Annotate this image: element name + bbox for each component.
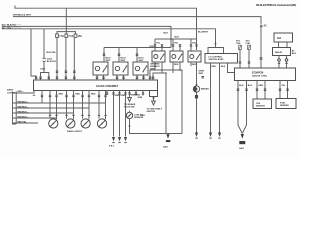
svg-text:SENSOR: SENSOR [134, 117, 144, 119]
relay bank2 bottom pins [96, 75, 98, 80]
sensor box B [276, 99, 296, 109]
svg-text:BLK: BLK [248, 85, 253, 87]
wire drop with connector to gauge [43, 29, 45, 58]
svg-text:A B C: A B C [109, 145, 115, 148]
svg-text:BLK: BLK [292, 53, 297, 55]
lamp L5 [126, 112, 132, 118]
arrow terminal mid 1 [195, 133, 198, 138]
svg-text:BLK: BLK [239, 85, 244, 87]
bus B2 [13, 17, 261, 24]
relay K5 [170, 51, 183, 62]
flat box feed bracket [215, 43, 217, 45]
flat box (switch assembly) [205, 54, 238, 64]
connector C506 [43, 58, 46, 61]
fuse bracket [57, 32, 76, 34]
relay K2 [113, 62, 128, 75]
V ground left [165, 73, 167, 134]
ECM/PCM box [235, 68, 296, 81]
fuse box B (top right) [274, 33, 293, 42]
svg-text:RELAY: RELAY [275, 51, 283, 54]
svg-text:BLK: BLK [221, 66, 226, 68]
bulb L3 [81, 119, 90, 128]
connector circles to ECM [278, 56, 280, 59]
svg-text:RED/BLK—: RED/BLK— [18, 106, 30, 108]
sub box on gauge right [150, 91, 158, 97]
svg-text:B2: B2 [292, 51, 296, 53]
gauge top connector ticks [35, 77, 154, 78]
svg-text:C501: C501 [40, 69, 46, 71]
svg-text:A22··BLK/YEL··—··: A22··BLK/YEL··—·· [2, 24, 22, 27]
svg-text:RED/BLK—: RED/BLK— [18, 116, 30, 118]
svg-text:SENSOR: SENSOR [256, 106, 265, 108]
bus B3 [2, 26, 171, 47]
svg-text:GRN: GRN [150, 68, 155, 70]
bus B2 connector break [260, 25, 262, 26]
svg-text:GRN: GRN [115, 95, 120, 97]
svg-text:CHK: CHK [246, 43, 251, 45]
svg-text:RED: RED [91, 94, 96, 96]
svg-text:RED: RED [76, 94, 81, 96]
svg-text:TO BRAKE: TO BRAKE [124, 103, 136, 106]
svg-text:GRN: GRN [121, 95, 126, 97]
svg-text:FUEL: FUEL [280, 102, 286, 104]
relay K1 [93, 62, 108, 75]
svg-text:40A: 40A [277, 37, 282, 40]
svg-text:YEL: YEL [192, 42, 197, 44]
svg-text:VSS: VSS [256, 103, 261, 105]
svg-text:RED/YEL: RED/YEL [18, 121, 28, 123]
svg-text:RED: RED [199, 73, 204, 75]
svg-text:WHT/BLK ▶ WHT: WHT/BLK ▶ WHT [13, 14, 32, 17]
relay box right [273, 48, 291, 56]
bulb L1 [49, 119, 58, 128]
inline connector ticks on fuse wires [56, 71, 76, 72]
relay bank1 bottom wiring [154, 62, 156, 70]
arrow terminal mid 2 [209, 133, 212, 138]
svg-text:C506: C506 [47, 59, 53, 61]
fuse feed from B1 [65, 8, 67, 31]
svg-text:LIGHTS: LIGHTS [7, 92, 16, 94]
svg-text:15A: 15A [78, 35, 83, 38]
long line from B1: junction, lamp, diode [196, 84, 198, 86]
bus B2 continuation to ECM [260, 27, 262, 68]
svg-text:RED: RED [212, 66, 217, 68]
open arrow from gauge pin [128, 98, 132, 102]
bus B1 (HOT AT ALL TIMES) [15, 6, 197, 51]
svg-text:G401: G401 [163, 146, 169, 149]
ECM bottom pins [238, 81, 242, 134]
svg-text:YEL: YEL [281, 85, 286, 87]
svg-text:A17··YEL—··—··—: A17··YEL—··—··— [2, 26, 22, 29]
svg-text:YEL: YEL [174, 42, 179, 44]
arrow terminal mid 3 [218, 133, 221, 138]
diode D1 [196, 92, 198, 95]
flat box bottom pins [210, 63, 212, 133]
svg-text:GRN: GRN [258, 85, 263, 87]
fuse F1 [56, 34, 59, 37]
svg-text:LOW OIL: LOW OIL [134, 115, 144, 117]
relay K6 [188, 51, 201, 62]
ground right [241, 134, 244, 139]
relay bank 2 feed bracket [104, 47, 171, 49]
gauge bottom connector ticks [33, 93, 144, 97]
ECM top ticks [239, 58, 288, 64]
fuse F2 [65, 34, 68, 37]
svg-text:GRN/: GRN/ [199, 71, 205, 73]
relay K4 [152, 51, 165, 62]
svg-text:FLUID SW: FLUID SW [124, 107, 136, 109]
svg-text:(GAUGE CTRL): (GAUGE CTRL) [252, 74, 267, 77]
svg-text:RED/BLK—: RED/BLK— [18, 111, 30, 113]
svg-text:RED/BLK—: RED/BLK— [18, 101, 30, 103]
svg-text:YEL: YEL [156, 42, 161, 44]
svg-text:C501: C501 [149, 46, 155, 48]
arrow terminals left group [112, 137, 115, 142]
svg-text:BLK: BLK [175, 37, 180, 39]
svg-text:A2: A2 [264, 25, 268, 28]
bulb L4 [97, 119, 106, 128]
svg-text:RED—: RED— [18, 91, 25, 93]
open arrow to other page [152, 101, 156, 105]
lamp on long line [193, 86, 199, 92]
gauge bottom pins [13, 91, 35, 94]
bus B4 [2, 29, 216, 48]
svg-text:RED: RED [59, 94, 64, 96]
svg-text:BLK: BLK [164, 33, 169, 35]
fuse output wires [56, 37, 58, 80]
svg-text:BLK/YEL: BLK/YEL [47, 52, 57, 54]
svg-text:G402: G402 [239, 147, 245, 150]
split bracket to two gauge pins [41, 73, 49, 81]
svg-text:CHK: CHK [236, 43, 241, 45]
junction bracket1/vertical [170, 38, 172, 40]
svg-text:DASH LIGHTS: DASH LIGHTS [67, 130, 82, 133]
wire drop to gauge pin 1 [31, 29, 36, 80]
svg-text:SENDER: SENDER [280, 105, 289, 107]
svg-text:DASH: DASH [7, 89, 14, 92]
svg-text:62 ELECTRICAL Instrument (96): 62 ELECTRICAL Instrument (96) [256, 3, 296, 7]
gauge assembly box [34, 80, 158, 91]
svg-text:BLK/YEL: BLK/YEL [47, 61, 57, 63]
svg-text:RED: RED [174, 64, 179, 66]
svg-text:LT CONTROL: LT CONTROL [209, 57, 224, 59]
relay bank 1 feed bracket [155, 38, 197, 40]
svg-text:BLU/WHT: BLU/WHT [198, 32, 209, 34]
fuse F3 [74, 34, 77, 37]
svg-text:SWITCH ASSY: SWITCH ASSY [209, 58, 225, 61]
svg-text:BRAKE: BRAKE [201, 88, 209, 91]
relay K3 [133, 62, 148, 75]
svg-text:7.5A: 7.5A [59, 35, 64, 38]
svg-text:ECM/PCM: ECM/PCM [252, 71, 263, 74]
bulb L2 [66, 119, 75, 128]
sensor box A [253, 99, 272, 109]
svg-text:SWITCH: SWITCH [147, 111, 156, 113]
svg-text:GAUGE ASSEMBLY: GAUGE ASSEMBLY [96, 85, 119, 88]
svg-text:TO SEAT BELT: TO SEAT BELT [147, 108, 163, 111]
svg-text:GRN: GRN [138, 97, 143, 99]
svg-text:7.5A: 7.5A [69, 35, 74, 38]
